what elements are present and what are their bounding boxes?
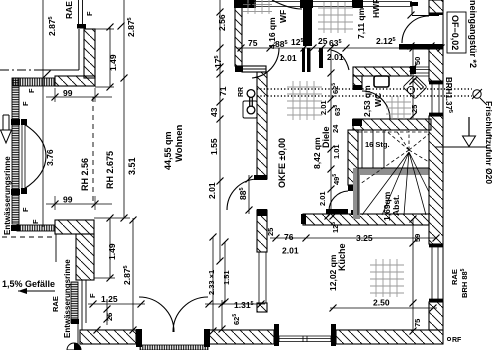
- WC washbasin: [374, 76, 389, 87]
- ticks top micro: [236, 1, 256, 8]
- wall top-left vertical: [84, 29, 95, 78]
- svg-text:1.55: 1.55: [209, 138, 219, 155]
- RR box with circle: [243, 101, 257, 118]
- bay window frame: [279, 336, 331, 342]
- right wall kitchen window: [429, 247, 443, 299]
- tile grid diele: [287, 81, 322, 120]
- left house wall top: [235, 0, 242, 66]
- kitchen wall left cap: [301, 214, 306, 224]
- svg-text:1,69qm: 1,69qm: [382, 191, 392, 221]
- ticks corridor bar: [408, 12, 435, 50]
- ticks 88.5 door: [246, 176, 253, 214]
- ticks 1.25 and 25: [90, 301, 145, 323]
- dim line 62.5 bottom: [221, 300, 223, 331]
- ticks x124: [118, 23, 128, 222]
- svg-text:1.49: 1.49: [108, 54, 118, 71]
- dim line x225 (1.51): [224, 242, 226, 302]
- wohnen-diele door arc: [227, 179, 258, 210]
- top-left bay window lines: [79, 0, 83, 24]
- window jambs right wall: [429, 13, 443, 15]
- svg-text:F: F: [27, 88, 36, 93]
- svg-text:RR: RR: [238, 87, 245, 97]
- right exterior wall seg4: [429, 302, 443, 330]
- tile grid WC: [386, 96, 411, 119]
- ticks on x220 chain: [217, 9, 224, 265]
- extension lines: [55, 87, 130, 278]
- svg-text:Wohnen: Wohnen: [174, 125, 185, 162]
- door jamb bars below partition: [302, 48, 305, 72]
- right exterior wall seg3: [429, 116, 443, 244]
- tick at top-left inner corner: [44, 71, 51, 78]
- bottom french door arcs: [139, 297, 174, 332]
- drainage channel bottom-left vertical: [71, 282, 78, 323]
- ticks on y48 chain: [238, 45, 445, 52]
- svg-text:RAE: RAE: [450, 269, 459, 285]
- svg-text:7,11 qm: 7,11 qm: [356, 7, 366, 39]
- abst door arc: [329, 191, 348, 211]
- bottom wall outline top edge: [80, 329, 429, 331]
- ticks right chain x413: [410, 45, 417, 335]
- WC bottom / stair top wall: [353, 119, 431, 130]
- OF-0,02 label box: [447, 12, 466, 53]
- svg-text:Nebeneingangstür *2: Nebeneingangstür *2: [468, 0, 478, 68]
- svg-text:43: 43: [209, 107, 219, 117]
- svg-text:4,16 qm: 4,16 qm: [267, 17, 277, 49]
- ticks x213 x225: [210, 234, 229, 335]
- dim chain diele x331: [330, 48, 332, 213]
- WC left wall: [353, 76, 362, 89]
- WF door to wohnen arc: [252, 48, 279, 78]
- entry top verticals: [412, 2, 429, 15]
- svg-text:99: 99: [63, 88, 73, 98]
- svg-text:F: F: [85, 11, 94, 16]
- svg-text:F: F: [21, 207, 30, 212]
- top wall black segments: [234, 0, 256, 8]
- WC top window lines: [411, 67, 429, 76]
- wohnen-diele glass lines: [259, 252, 266, 303]
- svg-text:16 Stg.: 16 Stg.: [365, 140, 390, 149]
- step wall band: [242, 66, 266, 72]
- wohnen-diele wall lowest piece: [257, 303, 267, 312]
- dim line kitchen y238: [270, 237, 437, 239]
- tile grid WF: [243, 0, 272, 14]
- stair bottom / kitchen top wall: [303, 214, 429, 225]
- dim line x133 lower 2.875: [132, 218, 134, 330]
- svg-text:2.01: 2.01: [207, 182, 217, 199]
- stair winder dashed rays: [358, 130, 429, 184]
- dim line 1.315: [205, 303, 265, 305]
- right wall WC window: [429, 84, 443, 113]
- dim line x110 lower 1.49: [109, 218, 111, 278]
- svg-text:8,42 qm: 8,42 qm: [312, 137, 322, 169]
- wohnen-diele wall upper: [257, 72, 267, 179]
- ticks 99 top: [52, 94, 99, 101]
- ticks kitchen y238: [273, 235, 440, 242]
- svg-text:3.76: 3.76: [45, 149, 55, 166]
- bottom exterior wall seg1: [80, 330, 136, 344]
- svg-text:Entwässerungsrinne: Entwässerungsrinne: [63, 259, 72, 338]
- left wall bottom cap: [235, 66, 243, 72]
- dim chain right x413 upper: [412, 46, 414, 118]
- svg-text:2.01: 2.01: [280, 53, 297, 63]
- svg-text:BRH1.375: BRH1.375: [444, 77, 453, 113]
- side entrance door: leaf + arc: [412, 15, 439, 17]
- stair zone dashed top edge: [358, 131, 429, 133]
- top micro dim: [236, 3, 256, 5]
- svg-text:OKFE ±0,00: OKFE ±0,00: [277, 138, 287, 188]
- stair left wall: [348, 130, 358, 185]
- svg-text:RH 2.675: RH 2.675: [105, 151, 115, 189]
- wall bottom-left horizontal: [55, 220, 94, 234]
- top wall window glazing lines: [256, 2, 412, 7]
- HWR small door arc: [331, 50, 349, 70]
- svg-text:25: 25: [105, 313, 114, 321]
- terrace hollow arrow left: [1, 115, 12, 130]
- svg-text:2.56: 2.56: [217, 14, 227, 31]
- dim line 99 bottom: [46, 203, 112, 205]
- dim line 99 top: [46, 96, 112, 98]
- WF/HWR partition wall: [303, 0, 312, 46]
- svg-text:3.51: 3.51: [127, 157, 137, 175]
- drainage channel left vertical: [12, 78, 19, 224]
- drainage channel bottom horizontal cap: [17, 225, 55, 231]
- dim chain right x413 lower: [412, 219, 414, 331]
- bottom exterior wall seg2: [209, 330, 274, 344]
- dashed line x93: [92, 97, 94, 203]
- stair gray stringer: [353, 168, 429, 175]
- ticks 99 bottom: [52, 201, 99, 208]
- WC door jambs: [353, 85, 362, 90]
- svg-text:RAE: RAE: [64, 1, 74, 19]
- inner faces top-left corner: [42, 29, 79, 70]
- dim line 1.25: [88, 303, 145, 305]
- svg-text:75: 75: [248, 38, 258, 48]
- svg-text:2.01: 2.01: [282, 246, 299, 256]
- wohnen door bottom jamb: [257, 209, 267, 216]
- drainage channel top horizontal cap: [13, 78, 55, 86]
- svg-text:2.01: 2.01: [318, 191, 327, 206]
- svg-text:2,53 qm: 2,53 qm: [362, 85, 372, 117]
- fresh air platform line y147: [435, 146, 487, 148]
- door threshold drainage at bottom door: [140, 345, 208, 350]
- svg-text:99: 99: [63, 195, 73, 205]
- svg-text:3.25: 3.25: [356, 233, 373, 243]
- tick on bottom wall left: [94, 327, 101, 334]
- gefaelle arrow: [18, 290, 55, 292]
- RF marker: [447, 337, 450, 340]
- ticks x133: [130, 217, 137, 334]
- svg-text:1.51: 1.51: [222, 270, 231, 285]
- dim line horizontal y48: [236, 47, 441, 49]
- right exterior wall seg2: [429, 46, 443, 81]
- svg-text:1.49: 1.49: [107, 243, 117, 260]
- left facade door frame lines: [22, 119, 25, 194]
- wohnen-diele wall lower piece: [257, 210, 267, 252]
- channel edge to bottom wall: [77, 323, 79, 344]
- svg-text:76: 76: [284, 232, 294, 242]
- svg-text:24: 24: [331, 124, 340, 133]
- svg-text:WF: WF: [278, 10, 288, 23]
- dim line x110 upper 1.49: [109, 27, 111, 87]
- dim line 25 bottom-left: [106, 299, 108, 325]
- svg-text:WC: WC: [373, 93, 383, 107]
- ticks 1.315 and 62.5: [206, 301, 265, 333]
- section mark circle bottom-left: [67, 343, 81, 350]
- bay window jambs: [274, 324, 279, 346]
- svg-text:2.33 ×1: 2.33 ×1: [207, 270, 216, 295]
- svg-text:2.01: 2.01: [319, 100, 328, 115]
- svg-text:71: 71: [218, 86, 228, 96]
- svg-text:12,02 qm: 12,02 qm: [328, 254, 338, 291]
- svg-text:1.01: 1.01: [332, 144, 341, 159]
- svg-text:25: 25: [318, 36, 328, 46]
- svg-text:44,55 qm: 44,55 qm: [163, 131, 173, 170]
- wall top-left horizontal: [55, 76, 95, 86]
- dim line x213 (2.33): [212, 237, 214, 331]
- drainage channel junction blocks: [11, 119, 27, 231]
- corner edge line x56: [55, 234, 57, 262]
- step corner lines: [242, 66, 266, 72]
- left facade door caps: [21, 119, 27, 125]
- axis dash-dot line y70: [0, 69, 42, 71]
- svg-text:1.25: 1.25: [101, 294, 118, 304]
- svg-text:1,5% Gefälle: 1,5% Gefälle: [2, 279, 55, 289]
- svg-text:25: 25: [410, 105, 419, 113]
- svg-text:Entwässerungsrinne: Entwässerungsrinne: [3, 156, 12, 235]
- dim line x43 left: [42, 0, 44, 227]
- svg-text:HWR: HWR: [371, 0, 381, 18]
- ticks kitchen y308: [330, 305, 437, 312]
- WF entry door arc top: [272, 0, 302, 9]
- dim chain vertical x220: [219, 0, 221, 261]
- svg-text:F: F: [21, 101, 30, 106]
- ticks kitchen band start: [325, 213, 337, 220]
- fresh air arrow: [468, 117, 470, 136]
- svg-text:RH 2.56: RH 2.56: [80, 158, 90, 191]
- svg-text:RF: RF: [452, 337, 462, 344]
- svg-text:RAE: RAE: [51, 296, 60, 312]
- svg-text:Frischluftzufuhr Ø20: Frischluftzufuhr Ø20: [484, 101, 494, 184]
- dashed line y237: [2, 236, 56, 238]
- stair risers straight flight: [358, 130, 429, 168]
- bottom door jambs: [136, 329, 142, 347]
- WC toilet: [403, 75, 427, 99]
- entry corridor wall piece: [399, 44, 443, 50]
- svg-text:BRH 885: BRH 885: [460, 268, 469, 298]
- left facade double door arcs: [24, 124, 46, 156]
- wohnen door top jamb: [254, 175, 267, 180]
- bottom exterior wall seg3: [336, 330, 443, 344]
- wall bottom-left vertical: [76, 234, 94, 280]
- WC door arc: [362, 91, 390, 119]
- svg-text:2.50: 2.50: [373, 298, 390, 308]
- svg-text:Diele: Diele: [321, 126, 331, 148]
- svg-text:2.01: 2.01: [327, 52, 344, 62]
- ticks diele chain x331: [328, 45, 335, 217]
- right exterior wall seg1: [429, 0, 443, 13]
- svg-text:Abst.: Abst.: [391, 195, 401, 216]
- fresh air duct circle: [472, 89, 487, 105]
- extension line at y29: [95, 28, 114, 30]
- beam dotted line 1: [257, 88, 472, 90]
- WC top window jamb: [410, 66, 416, 74]
- right wall outer face: [442, 0, 444, 344]
- abst door jambs: [348, 185, 358, 191]
- svg-text:Küche: Küche: [337, 243, 347, 271]
- stair outline: [358, 130, 429, 215]
- svg-text:75: 75: [413, 319, 422, 327]
- WC top wall: [353, 67, 411, 76]
- svg-text:25: 25: [266, 228, 275, 236]
- bay window cap: [77, 24, 86, 29]
- ticks x110 dims: [107, 24, 114, 282]
- svg-text:50: 50: [413, 57, 422, 65]
- svg-text:F: F: [31, 219, 40, 224]
- svg-text:59: 59: [413, 234, 422, 242]
- beam dotted line 2: [257, 95, 472, 97]
- dim line kitchen y308: [330, 307, 437, 309]
- RR rainpipe circle: [247, 90, 255, 98]
- tile grid HWR: [318, 2, 353, 33]
- tile grid kitchen: [370, 259, 404, 297]
- svg-text:OF−0,02: OF−0,02: [450, 15, 460, 50]
- svg-text:F: F: [88, 293, 97, 298]
- dim line x124 (2.875/3.51): [123, 0, 125, 218]
- wall edge lines beside channel: [82, 280, 86, 330]
- dim line 88.5 door: [248, 175, 250, 214]
